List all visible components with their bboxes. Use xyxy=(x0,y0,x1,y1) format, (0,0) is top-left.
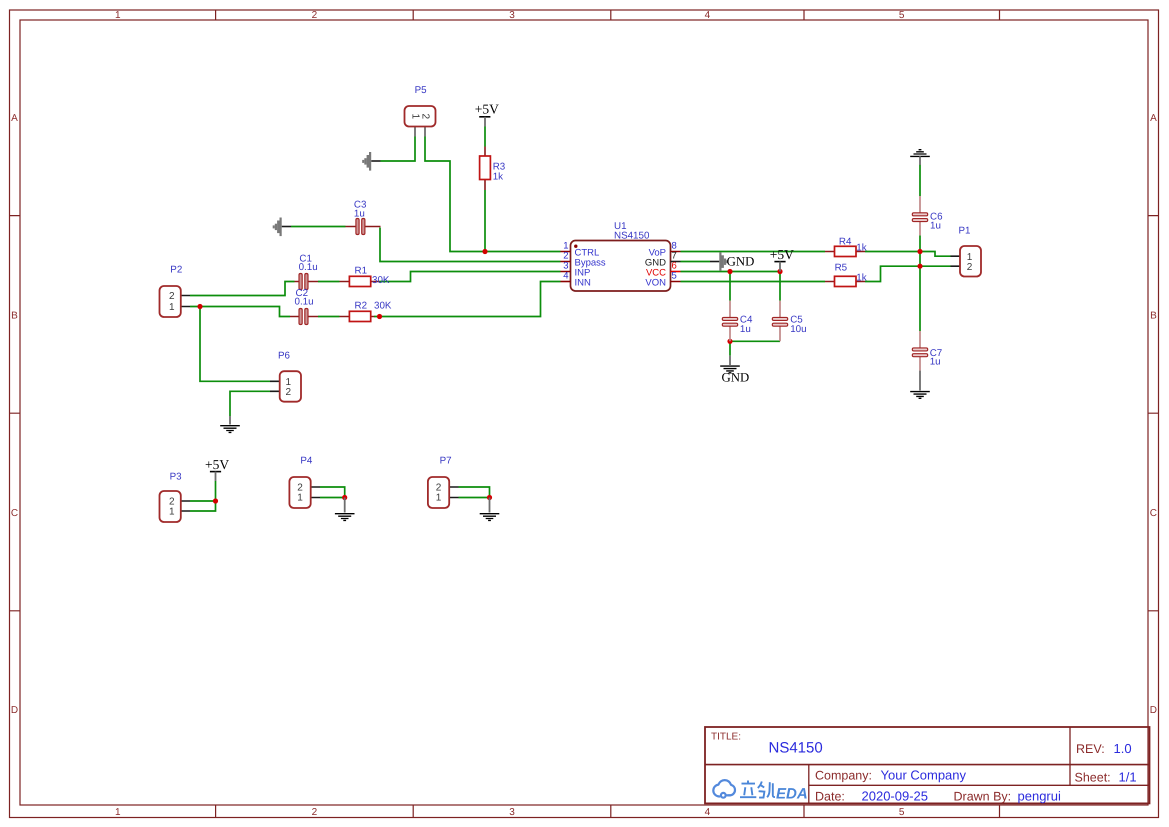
svg-text:2: 2 xyxy=(312,10,318,21)
svg-text:5: 5 xyxy=(899,10,905,21)
power flag +5V at C5 xyxy=(770,247,794,272)
wire U1 VoP to R4 left xyxy=(681,251,826,253)
svg-text:30K: 30K xyxy=(374,301,392,312)
svg-text:R4: R4 xyxy=(839,236,852,247)
svg-text:1u: 1u xyxy=(930,357,941,368)
wire R1 right to U1 INP xyxy=(380,272,561,282)
svg-text:P6: P6 xyxy=(278,350,291,361)
capacitor C7 1u xyxy=(912,331,942,371)
wire ground to C3 left xyxy=(291,226,346,228)
ground earth GND at C4/C5 xyxy=(720,356,749,385)
svg-text:C: C xyxy=(11,508,18,519)
junction node P3 +5V xyxy=(213,498,218,503)
wire C1 right to R1 left xyxy=(318,281,340,283)
wire P5 pin1 to ground xyxy=(381,137,416,162)
wire P1 node down to C7 xyxy=(919,266,921,331)
wire R5 right to P1 pin2 xyxy=(865,266,951,281)
svg-text:INN: INN xyxy=(575,277,592,288)
wire P2 pin2 to C1 left xyxy=(190,282,295,296)
svg-text:TITLE:: TITLE: xyxy=(711,732,741,743)
svg-text:+5V: +5V xyxy=(770,247,794,262)
wire VCC node down to C4 xyxy=(729,272,731,301)
wire P6 pin2 to ground xyxy=(230,391,270,416)
wire P5 pin2 to node CTRL xyxy=(425,137,561,252)
wire R3 bottom to node CTRL xyxy=(484,190,486,252)
svg-text:1u: 1u xyxy=(740,324,751,335)
svg-text:REV:: REV: xyxy=(1076,742,1105,756)
resistor R1 30K xyxy=(340,266,390,287)
svg-text:5: 5 xyxy=(672,271,677,282)
capacitor C6 1u xyxy=(912,196,943,235)
connector P5 (rotated) xyxy=(405,85,436,136)
resistor R2 30K xyxy=(340,301,392,322)
svg-text:2: 2 xyxy=(169,291,175,302)
resistor R3 1k xyxy=(480,147,506,191)
wire U1 VCC to +5V node xyxy=(681,271,781,273)
svg-text:P1: P1 xyxy=(959,226,971,237)
wire P2 pin1 to C2 left xyxy=(190,307,290,317)
svg-text:P7: P7 xyxy=(440,456,452,467)
svg-text:1: 1 xyxy=(115,807,121,818)
wire C6 lead down through VoP node to P1 node xyxy=(919,235,921,266)
svg-text:Your Company: Your Company xyxy=(881,768,967,783)
wire P3 pin1 up to +5V node xyxy=(190,501,216,511)
svg-text:NS4150: NS4150 xyxy=(769,740,823,757)
svg-text:B: B xyxy=(1150,310,1157,321)
svg-text:5: 5 xyxy=(899,807,905,818)
svg-text:EDA: EDA xyxy=(776,786,808,803)
connector P7 xyxy=(428,456,459,508)
svg-text:VON: VON xyxy=(645,277,666,288)
svg-text:0.1u: 0.1u xyxy=(299,262,318,273)
svg-text:1/1: 1/1 xyxy=(1119,770,1137,785)
junction node VCC/C4 xyxy=(727,269,732,274)
wire top ground to C6 xyxy=(919,165,921,197)
svg-text:+5V: +5V xyxy=(205,457,229,472)
svg-text:1k: 1k xyxy=(856,243,866,254)
connector P2 xyxy=(160,264,191,317)
capacitor C5 10u xyxy=(772,301,806,342)
svg-text:P3: P3 xyxy=(170,472,183,483)
connector P4 xyxy=(289,456,320,508)
junction node +5V/C5 xyxy=(777,269,782,274)
wire P3 pin2 to +5V node xyxy=(190,500,216,502)
capacitor C4 1u xyxy=(722,301,753,342)
wire U1 VON to R5 left xyxy=(681,281,826,283)
svg-text:0.1u: 0.1u xyxy=(295,297,314,308)
svg-text:2020-09-25: 2020-09-25 xyxy=(862,789,929,804)
ground arrow at C3 left xyxy=(273,218,291,237)
svg-text:+5V: +5V xyxy=(475,102,499,117)
svg-text:4: 4 xyxy=(705,10,711,21)
ground earth at C7 xyxy=(910,371,930,399)
svg-text:1k: 1k xyxy=(856,273,866,284)
svg-text:NS4150: NS4150 xyxy=(614,231,650,242)
power flag +5V at P3 xyxy=(205,457,229,481)
svg-text:C: C xyxy=(1150,508,1157,519)
svg-text:2: 2 xyxy=(967,262,973,273)
svg-text:P5: P5 xyxy=(415,85,428,96)
svg-text:1: 1 xyxy=(436,492,442,503)
svg-text:GND: GND xyxy=(727,255,755,269)
svg-text:2: 2 xyxy=(286,387,292,398)
wire node P2.1 down to P6 pin1 xyxy=(200,307,270,382)
junction node VON/C7 xyxy=(917,264,922,269)
svg-text:D: D xyxy=(11,705,18,716)
svg-text:4: 4 xyxy=(563,271,568,282)
junction node CTRL/R3 xyxy=(482,249,487,254)
svg-text:A: A xyxy=(1150,113,1157,124)
svg-text:A: A xyxy=(11,113,18,124)
svg-text:D: D xyxy=(1150,705,1157,716)
svg-text:10u: 10u xyxy=(790,324,806,335)
svg-text:B: B xyxy=(11,310,18,321)
wire U1 GND pin to ground flag xyxy=(681,261,711,263)
wire C2 right to R2 left xyxy=(318,316,340,318)
svg-text:R5: R5 xyxy=(835,263,848,274)
wire +5V node down to C5 xyxy=(779,272,781,301)
svg-text:Date:: Date: xyxy=(815,790,845,804)
op-amp U1 NS4150 xyxy=(561,221,681,291)
svg-text:3: 3 xyxy=(509,807,515,818)
svg-text:1u: 1u xyxy=(930,220,941,231)
wire P7 pin1 to ground node xyxy=(459,497,490,499)
svg-text:1k: 1k xyxy=(493,172,503,183)
svg-text:1: 1 xyxy=(297,492,303,503)
svg-text:R1: R1 xyxy=(355,266,368,277)
resistor R4 1k xyxy=(825,236,867,256)
svg-text:R2: R2 xyxy=(355,301,368,312)
wire P7 pin2 to ground node xyxy=(459,487,490,498)
ground earth at P6 xyxy=(220,416,240,432)
svg-text:1: 1 xyxy=(169,506,175,517)
capacitor C3 1u xyxy=(346,200,381,235)
junction node R2 out xyxy=(377,314,382,319)
wire +5V to R3 top xyxy=(484,127,486,147)
wire C4 bottom node to ground xyxy=(729,341,731,355)
connector P6 xyxy=(270,350,301,401)
wire R2 right to U1 INN xyxy=(374,282,561,317)
junction node P4 gnd xyxy=(342,495,347,500)
svg-text:2: 2 xyxy=(312,807,318,818)
svg-text:30K: 30K xyxy=(372,275,390,286)
ground earth at P7 xyxy=(480,498,500,521)
junction node C4/C5 gnd xyxy=(727,339,732,344)
svg-text:Sheet:: Sheet: xyxy=(1075,771,1111,785)
svg-text:1.0: 1.0 xyxy=(1114,741,1132,756)
ground flag GND at U1 pin7 xyxy=(710,252,754,271)
wire P4 pin2 to ground node xyxy=(320,487,345,498)
svg-text:pengrui: pengrui xyxy=(1018,789,1061,804)
svg-text:Company:: Company: xyxy=(815,769,872,783)
ground earth at P4 xyxy=(335,498,355,521)
svg-text:3: 3 xyxy=(509,10,515,21)
svg-text:1: 1 xyxy=(410,113,421,119)
svg-text:4: 4 xyxy=(705,807,711,818)
power flag +5V at R3 xyxy=(475,102,499,127)
svg-text:2: 2 xyxy=(420,113,431,119)
capacitor C2 0.1u xyxy=(290,288,318,325)
wire C3 right to U1 Bypass xyxy=(380,228,561,262)
svg-text:P4: P4 xyxy=(300,456,313,467)
ground earth top right (inverted) xyxy=(910,150,930,165)
connector P3 xyxy=(160,472,191,522)
wire R4 right to P1 pin1 xyxy=(865,252,951,257)
svg-text:1: 1 xyxy=(115,10,121,21)
junction node P7 gnd xyxy=(487,495,492,500)
connector P1 xyxy=(951,226,982,277)
capacitor C1 0.1u xyxy=(295,254,319,290)
junction node VoP/C6 xyxy=(917,249,922,254)
wire C4 bottom to C5 bottom xyxy=(730,340,780,342)
ground arrow at P5 pin1 xyxy=(362,152,380,171)
svg-text:1u: 1u xyxy=(354,208,365,219)
junction node P2.1 xyxy=(197,304,202,309)
TITLE BLOCK xyxy=(705,727,1150,803)
svg-text:P2: P2 xyxy=(170,264,182,275)
svg-text:GND: GND xyxy=(722,370,750,384)
wire P4 pin1 to ground node xyxy=(320,497,345,499)
svg-text:1: 1 xyxy=(169,302,175,313)
wire +5V flag to P3 node xyxy=(215,481,217,501)
svg-text:Drawn By:: Drawn By: xyxy=(954,790,1012,804)
resistor R5 1k xyxy=(825,263,867,287)
